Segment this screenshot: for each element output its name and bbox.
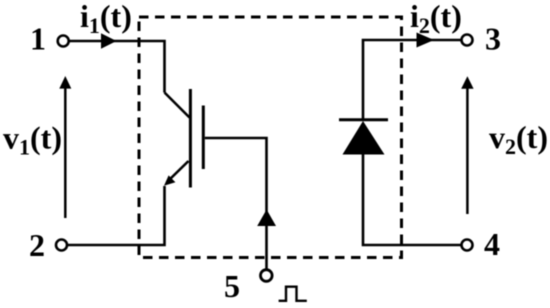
wire: terminal 2 to IGBT emitter bbox=[68, 186, 165, 245]
svg-text:3: 3 bbox=[485, 21, 501, 57]
diode D1: anode triangle bbox=[343, 121, 385, 155]
svg-text:v2(t): v2(t) bbox=[489, 119, 548, 159]
svg-text:v1(t): v1(t) bbox=[3, 120, 62, 160]
IGBT Q1: channel bar bbox=[189, 89, 192, 188]
voltage arrow v2 bbox=[466, 86, 469, 214]
terminal 2 node bbox=[56, 240, 67, 251]
terminal 5 node bbox=[261, 270, 273, 282]
svg-text:i1(t): i1(t) bbox=[80, 0, 132, 38]
IGBT Q1: collector diagonal bbox=[165, 93, 190, 118]
svg-text:4: 4 bbox=[484, 226, 500, 262]
svg-text:1: 1 bbox=[30, 21, 46, 57]
gate pulse symbol bbox=[279, 287, 307, 301]
current arrow i2 bbox=[417, 33, 435, 48]
terminal 1 node bbox=[58, 36, 69, 47]
wire: terminal 1 to IGBT collector corner bbox=[70, 41, 165, 93]
svg-text:i2(t): i2(t) bbox=[410, 0, 462, 38]
wire: diode anode to terminal 4 bbox=[363, 153, 461, 245]
current arrow i1 bbox=[101, 33, 117, 49]
gate wire: IGBT gate to terminal 5 bbox=[205, 138, 267, 270]
wire: diode cathode to terminal 3 bbox=[363, 40, 461, 120]
svg-text:5: 5 bbox=[224, 268, 240, 304]
terminal 4 node bbox=[462, 240, 473, 251]
voltage arrow v1 bbox=[64, 86, 67, 218]
IGBT Q1: emitter diagonal bbox=[167, 161, 189, 182]
terminal 3 node bbox=[462, 35, 473, 46]
IGBT Q1: emitter arrowhead bbox=[164, 175, 175, 185]
IGBT Q1: gate bar bbox=[202, 106, 205, 170]
diode D1: cathode bar bbox=[339, 118, 388, 121]
dashed module boundary box bbox=[139, 17, 402, 258]
gate drive arrow bbox=[257, 210, 276, 227]
svg-text:2: 2 bbox=[29, 227, 45, 263]
